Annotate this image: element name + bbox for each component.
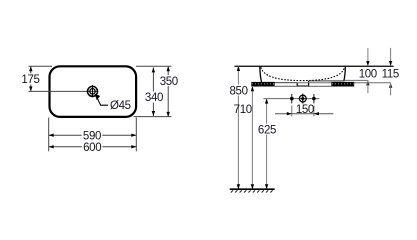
dimension 115	[382, 48, 399, 96]
dimension 850	[229, 66, 249, 189]
dimension 150	[275, 104, 333, 116]
svg-text:625: 625	[258, 124, 276, 136]
bowl left wall	[260, 66, 262, 82]
dimension 350	[159, 66, 179, 117]
dimension 600	[49, 141, 137, 154]
extension line drain level (175 bottom)	[29, 90, 99, 92]
svg-text:175: 175	[21, 74, 39, 86]
top rim line	[235, 65, 394, 67]
svg-text:150: 150	[296, 104, 314, 116]
dimension 175	[21, 66, 41, 91]
drain outlet symbol	[299, 94, 306, 104]
dimension 710	[234, 86, 254, 189]
svg-text:590: 590	[83, 130, 101, 142]
100-level extension line	[345, 79, 369, 81]
bowl bottom left segment	[261, 82, 297, 84]
basin outline (600x350 rounded rect)	[50, 66, 137, 117]
counter line (710 level)	[251, 85, 354, 87]
bowl bottom right segment	[309, 80, 345, 82]
leader line Ø45	[95, 94, 109, 106]
right supply point	[312, 94, 316, 104]
left mounting bar	[251, 82, 274, 86]
bowl inner dashed curve	[261, 67, 345, 80]
svg-text:100: 100	[359, 69, 377, 81]
extension line bottom-right	[134, 116, 172, 118]
115-level extension line	[275, 82, 391, 84]
dimension 625	[257, 99, 277, 190]
svg-text:Ø45: Ø45	[110, 100, 131, 112]
supply centerline	[263, 98, 319, 100]
dimension 340	[144, 67, 164, 116]
dimension 100	[359, 48, 377, 93]
dimension 590	[49, 130, 137, 143]
floor line	[230, 188, 275, 190]
extension line top-right	[136, 65, 171, 67]
extension line top-left (175 top)	[29, 65, 53, 67]
left supply point	[290, 94, 294, 104]
extension line bottom-right vertical	[135, 118, 137, 152]
svg-text:340: 340	[145, 92, 163, 104]
right mounting bar	[331, 82, 354, 86]
svg-text:850: 850	[230, 85, 248, 97]
svg-text:710: 710	[234, 104, 252, 116]
bowl right wall	[344, 66, 346, 81]
drain symbol	[88, 85, 98, 97]
svg-text:350: 350	[160, 76, 178, 88]
drain boss	[297, 81, 308, 86]
svg-text:600: 600	[83, 142, 101, 154]
extension line bottom-left vertical	[48, 118, 50, 152]
svg-text:115: 115	[382, 69, 399, 81]
dimension 150 extension lines	[291, 106, 293, 117]
floor hatching	[231, 190, 273, 192]
